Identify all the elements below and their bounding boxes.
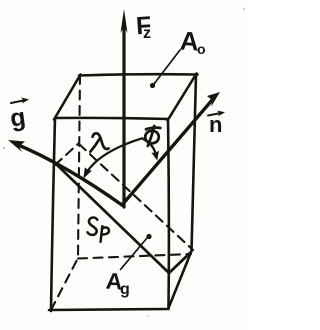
svg-text:g: g (8, 103, 27, 133)
svg-text:o: o (197, 41, 206, 57)
svg-text:g: g (120, 281, 130, 298)
svg-text:z: z (143, 25, 151, 42)
